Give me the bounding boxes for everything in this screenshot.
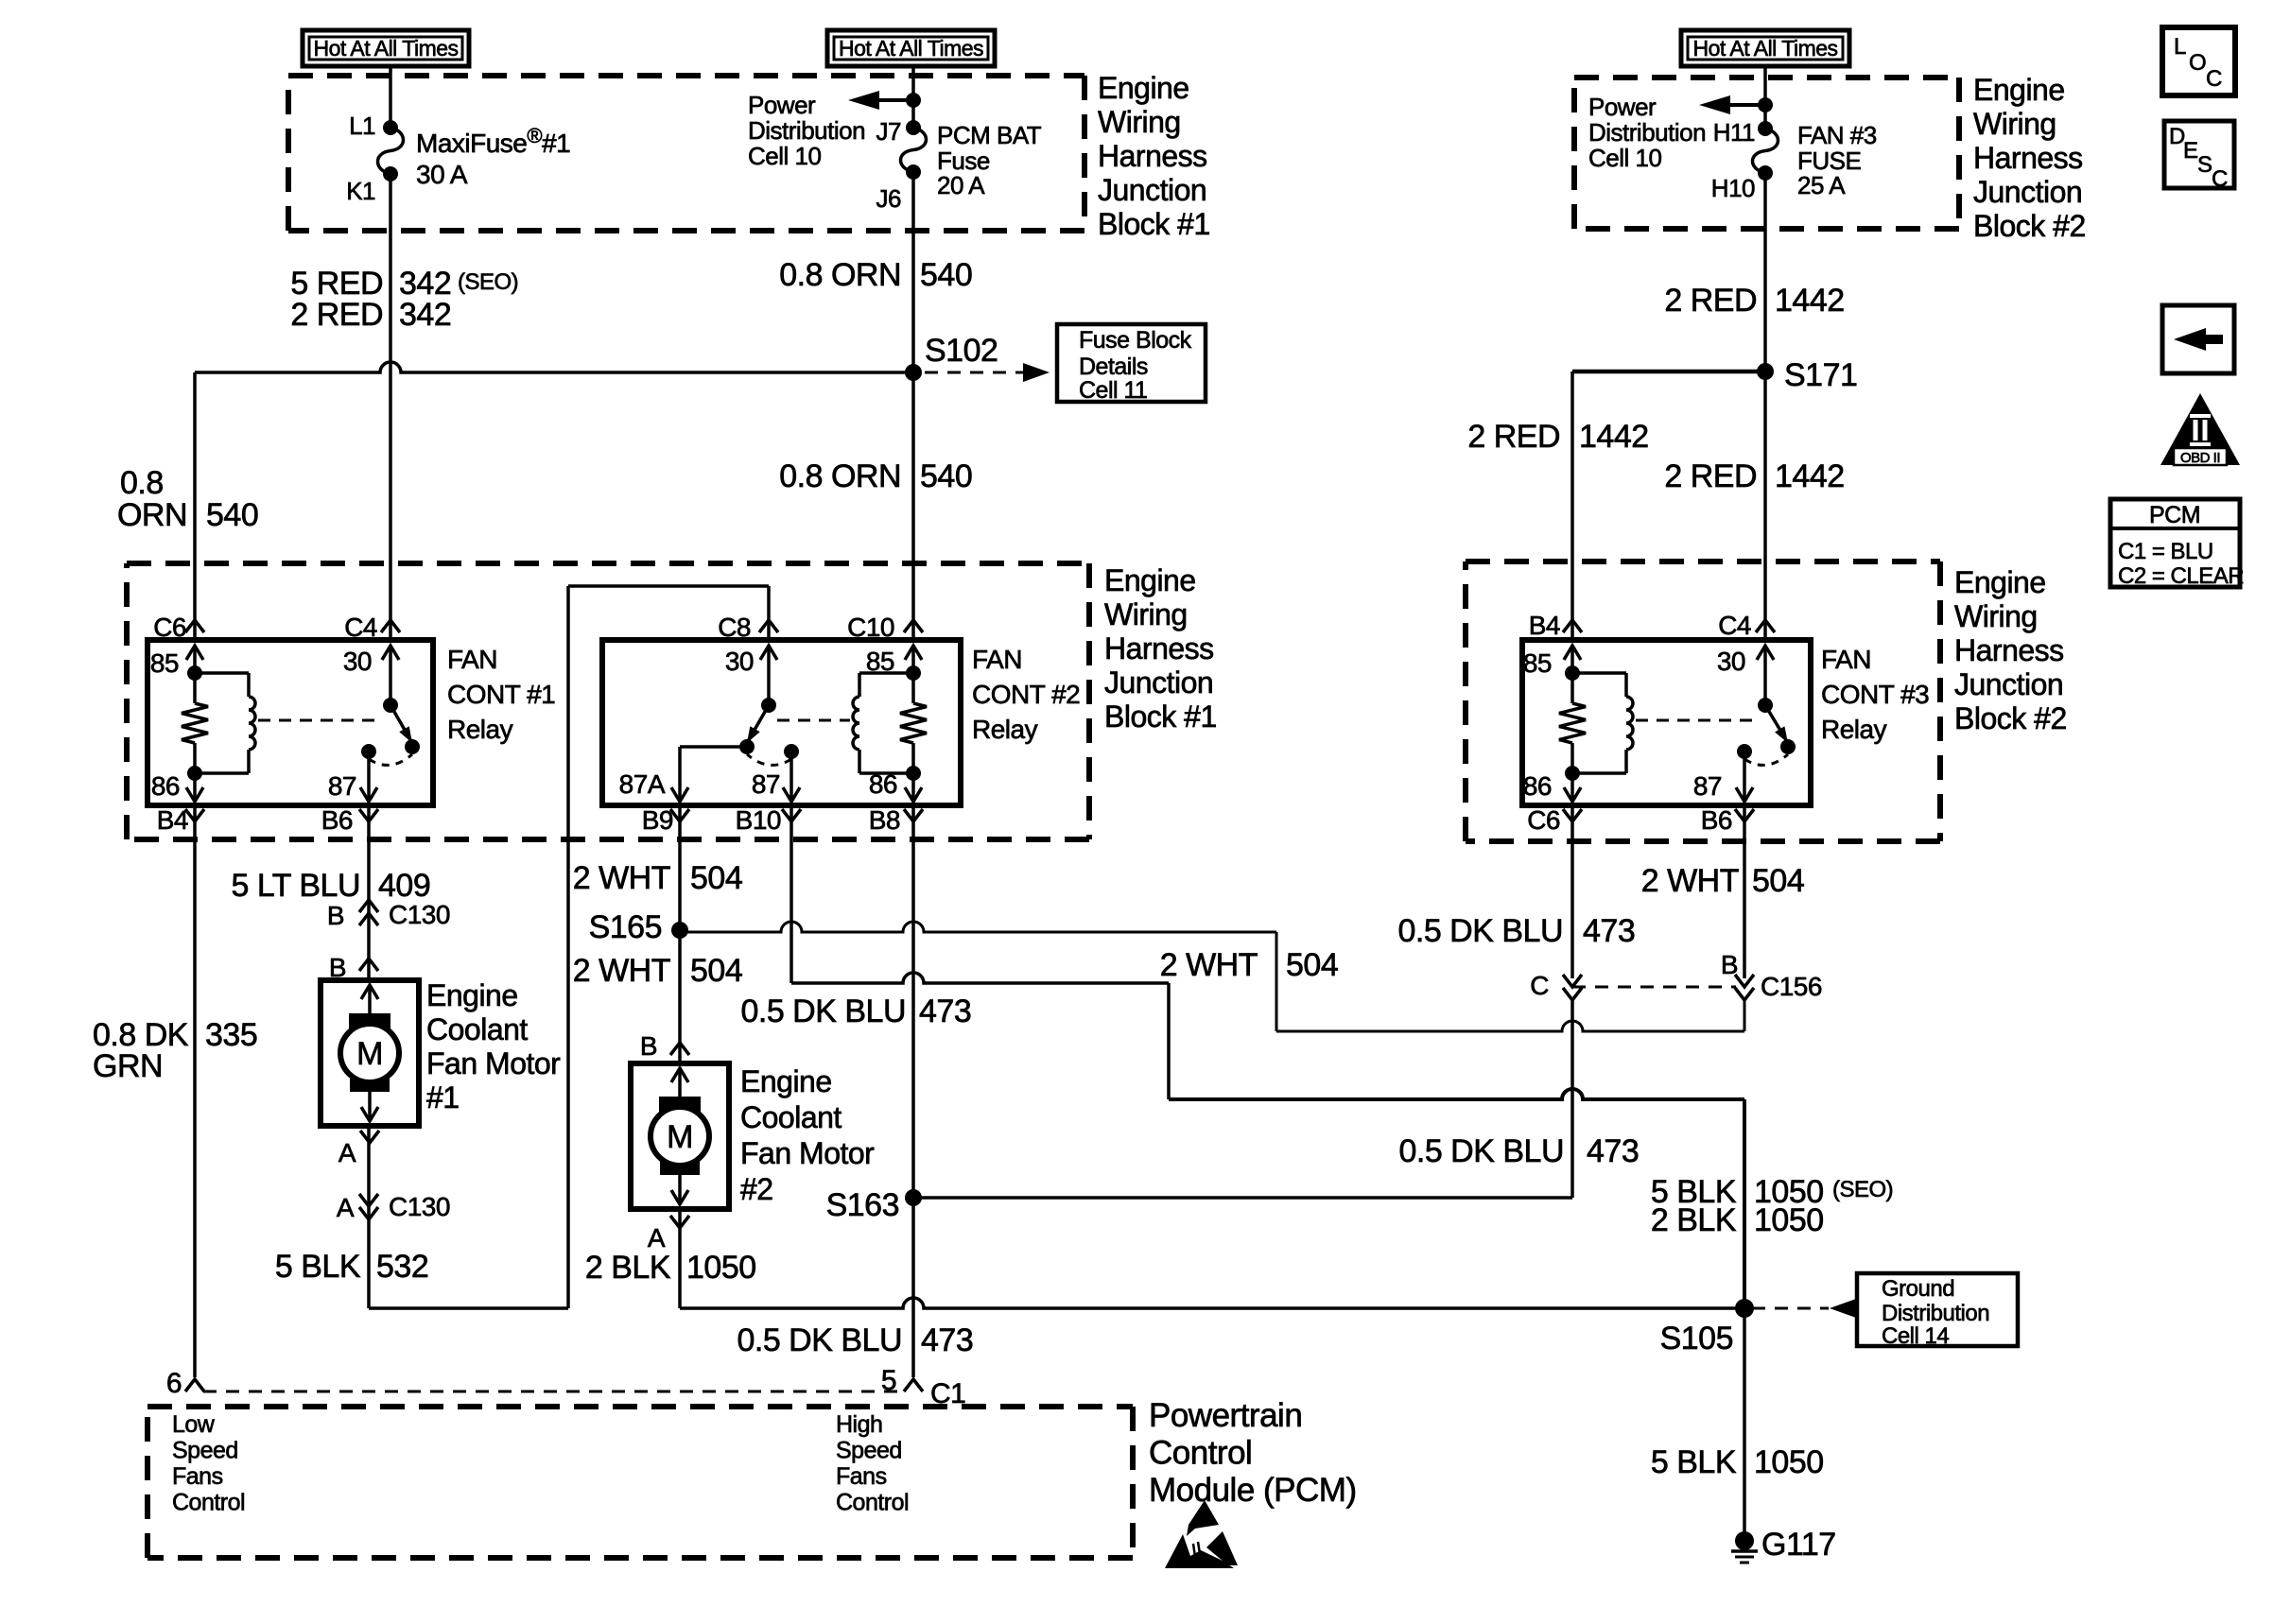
svg-text:A: A	[338, 1138, 356, 1167]
svg-text:335: 335	[205, 1017, 257, 1053]
svg-text:30: 30	[343, 647, 372, 676]
svg-text:C1 = BLU: C1 = BLU	[2118, 539, 2213, 564]
svg-text:Cell 11: Cell 11	[1079, 377, 1147, 404]
svg-text:1050: 1050	[686, 1250, 756, 1286]
svg-text:Coolant: Coolant	[426, 1012, 528, 1046]
svg-text:Block #2: Block #2	[1954, 701, 2067, 735]
svg-text:Harness: Harness	[1104, 631, 1214, 665]
svg-text:(SEO): (SEO)	[458, 269, 518, 295]
svg-text:1442: 1442	[1775, 458, 1845, 494]
svg-text:J7: J7	[876, 117, 902, 146]
svg-text:G117: G117	[1761, 1527, 1836, 1563]
svg-text:C: C	[1530, 971, 1549, 1000]
svg-text:Relay: Relay	[1821, 715, 1887, 744]
svg-text:473: 473	[921, 1322, 973, 1358]
svg-text:20 A: 20 A	[937, 171, 985, 199]
svg-text:Junction: Junction	[1104, 665, 1213, 700]
svg-text:2 BLK: 2 BLK	[585, 1250, 671, 1286]
svg-text:L: L	[2174, 34, 2186, 60]
svg-text:Engine: Engine	[1954, 565, 2046, 599]
svg-text:5 BLK: 5 BLK	[1651, 1444, 1737, 1480]
svg-text:2 RED: 2 RED	[290, 297, 383, 333]
svg-text:Module (PCM): Module (PCM)	[1149, 1472, 1357, 1509]
svg-text:1050: 1050	[1754, 1202, 1824, 1238]
svg-text:532: 532	[376, 1249, 428, 1285]
svg-text:30 A: 30 A	[416, 160, 468, 189]
svg-text:87: 87	[328, 771, 356, 801]
svg-text:Junction: Junction	[1954, 667, 2063, 701]
svg-text:Harness: Harness	[1973, 141, 2083, 175]
svg-text:Distribution: Distribution	[1588, 118, 1706, 147]
svg-text:K1: K1	[346, 177, 375, 205]
svg-text:Control: Control	[172, 1490, 245, 1516]
svg-text:S102: S102	[925, 333, 998, 369]
svg-text:Block #1: Block #1	[1104, 700, 1217, 734]
svg-text:Power: Power	[1588, 93, 1657, 121]
svg-text:540: 540	[920, 257, 972, 293]
svg-text:2 WHT: 2 WHT	[1160, 947, 1258, 983]
svg-text:M: M	[667, 1119, 693, 1155]
svg-text:Power: Power	[748, 91, 816, 119]
svg-text:Speed: Speed	[836, 1438, 902, 1464]
svg-text:B8: B8	[869, 805, 900, 835]
svg-text:504: 504	[690, 860, 742, 896]
svg-text:0.5 DK BLU: 0.5 DK BLU	[1398, 1133, 1564, 1169]
svg-text:Distribution: Distribution	[1882, 1301, 1989, 1326]
svg-text:#1: #1	[426, 1080, 460, 1114]
svg-text:30: 30	[725, 647, 754, 676]
svg-text:B6: B6	[1701, 805, 1732, 835]
svg-text:87: 87	[752, 769, 780, 799]
svg-text:Harness: Harness	[1098, 139, 1207, 173]
svg-text:Coolant: Coolant	[740, 1100, 842, 1134]
svg-text:473: 473	[919, 993, 971, 1029]
svg-text:B: B	[640, 1031, 657, 1061]
svg-text:M: M	[356, 1036, 383, 1072]
svg-text:Block #2: Block #2	[1973, 209, 2086, 243]
svg-text:B9: B9	[642, 805, 673, 835]
svg-text:Powertrain: Powertrain	[1149, 1397, 1302, 1434]
svg-text:CONT #1: CONT #1	[447, 680, 555, 709]
svg-text:85: 85	[1523, 648, 1552, 678]
svg-text:CONT #2: CONT #2	[972, 680, 1080, 709]
svg-text:FAN: FAN	[1821, 645, 1871, 674]
svg-text:B4: B4	[1529, 611, 1560, 640]
svg-text:CONT #3: CONT #3	[1821, 680, 1929, 709]
svg-text:Wiring: Wiring	[1973, 107, 2056, 141]
svg-text:Hot At All Times: Hot At All Times	[839, 36, 983, 60]
svg-text:Control: Control	[1149, 1435, 1252, 1472]
svg-text:S105: S105	[1660, 1321, 1733, 1356]
svg-text:Speed: Speed	[172, 1438, 238, 1464]
svg-text:Engine: Engine	[426, 978, 518, 1012]
svg-text:Engine: Engine	[1973, 73, 2065, 107]
svg-text:Engine: Engine	[740, 1064, 832, 1098]
svg-text:C130: C130	[389, 1192, 450, 1221]
svg-text:6: 6	[166, 1368, 182, 1399]
svg-text:25 A: 25 A	[1797, 171, 1846, 199]
svg-text:0.5 DK BLU: 0.5 DK BLU	[737, 1322, 902, 1358]
svg-text:C4: C4	[1718, 611, 1751, 640]
svg-text:Cell 10: Cell 10	[1588, 144, 1661, 172]
svg-text:2 RED: 2 RED	[1664, 283, 1757, 319]
svg-text:GRN: GRN	[93, 1048, 163, 1084]
svg-text:86: 86	[869, 769, 897, 799]
svg-text:2 WHT: 2 WHT	[573, 860, 670, 896]
svg-text:Fans: Fans	[172, 1463, 223, 1490]
svg-text:0.8 ORN: 0.8 ORN	[779, 257, 901, 293]
svg-text:S: S	[2197, 152, 2212, 178]
svg-text:B10: B10	[736, 805, 781, 835]
svg-text:C6: C6	[1527, 805, 1560, 835]
svg-text:H11: H11	[1713, 118, 1755, 147]
svg-text:C156: C156	[1761, 972, 1822, 1001]
svg-text:504: 504	[1286, 947, 1338, 983]
svg-text:Fan Motor: Fan Motor	[426, 1046, 561, 1080]
svg-text:Control: Control	[836, 1490, 909, 1516]
svg-text:FAN: FAN	[447, 645, 497, 674]
svg-text:Distribution: Distribution	[748, 116, 865, 145]
svg-text:B: B	[327, 901, 344, 930]
svg-text:2 BLK: 2 BLK	[1651, 1202, 1737, 1238]
svg-text:2 WHT: 2 WHT	[573, 953, 670, 989]
svg-text:J6: J6	[876, 184, 902, 213]
svg-text:S165: S165	[589, 909, 662, 945]
svg-text:504: 504	[1752, 863, 1804, 899]
svg-text:87: 87	[1693, 771, 1722, 801]
svg-text:504: 504	[690, 953, 742, 989]
svg-text:Hot At All Times: Hot At All Times	[1692, 36, 1837, 60]
svg-text:FAN #3: FAN #3	[1797, 121, 1877, 149]
svg-text:Cell 14: Cell 14	[1882, 1323, 1949, 1349]
svg-text:A: A	[337, 1193, 355, 1222]
svg-text:PCM BAT: PCM BAT	[937, 121, 1042, 149]
svg-text:L1: L1	[349, 112, 375, 140]
svg-text:Wiring: Wiring	[1954, 599, 2038, 633]
svg-text:87A: 87A	[619, 769, 666, 799]
svg-text:Relay: Relay	[972, 715, 1038, 744]
svg-text:540: 540	[920, 458, 972, 494]
svg-text:S171: S171	[1784, 357, 1857, 393]
svg-text:86: 86	[151, 771, 180, 801]
svg-text:5 BLK: 5 BLK	[275, 1249, 361, 1285]
svg-text:MaxiFuse®#1: MaxiFuse®#1	[416, 124, 570, 158]
svg-text:Engine: Engine	[1104, 563, 1196, 597]
svg-text:C1: C1	[930, 1378, 965, 1409]
svg-text:540: 540	[206, 497, 258, 533]
svg-text:O: O	[2189, 50, 2206, 76]
svg-text:85: 85	[150, 648, 179, 678]
svg-text:B: B	[1721, 950, 1738, 979]
svg-text:1442: 1442	[1579, 419, 1649, 455]
svg-text:A: A	[648, 1223, 666, 1253]
svg-text:Fan Motor: Fan Motor	[740, 1136, 875, 1170]
svg-text:0.8 ORN: 0.8 ORN	[779, 458, 901, 494]
svg-text:H10: H10	[1711, 174, 1755, 202]
svg-text:Hot At All Times: Hot At All Times	[313, 36, 458, 60]
svg-text:342: 342	[399, 297, 451, 333]
svg-text:Wiring: Wiring	[1098, 105, 1181, 139]
svg-text:High: High	[836, 1411, 882, 1438]
svg-text:(SEO): (SEO)	[1832, 1177, 1893, 1202]
svg-text:S163: S163	[826, 1187, 899, 1223]
svg-text:Wiring: Wiring	[1104, 597, 1188, 631]
svg-text:473: 473	[1583, 913, 1635, 949]
svg-text:1442: 1442	[1775, 283, 1845, 319]
svg-text:OBD II: OBD II	[2180, 450, 2220, 466]
svg-text:Harness: Harness	[1954, 633, 2064, 667]
svg-text:2 RED: 2 RED	[1664, 458, 1757, 494]
svg-text:1050: 1050	[1754, 1444, 1824, 1480]
svg-text:PCM: PCM	[2149, 502, 2200, 528]
svg-text:C130: C130	[389, 900, 450, 929]
svg-text:30: 30	[1717, 647, 1745, 676]
svg-text:0.5 DK BLU: 0.5 DK BLU	[1397, 913, 1563, 949]
svg-text:C: C	[2212, 166, 2228, 192]
svg-text:473: 473	[1587, 1133, 1639, 1169]
svg-text:C10: C10	[847, 613, 894, 642]
svg-text:86: 86	[1523, 771, 1552, 801]
svg-text:Engine: Engine	[1098, 71, 1189, 105]
svg-text:B6: B6	[321, 805, 353, 835]
svg-text:Relay: Relay	[447, 715, 513, 744]
svg-text:85: 85	[866, 647, 894, 676]
svg-text:2 RED: 2 RED	[1467, 419, 1560, 455]
svg-text:409: 409	[378, 868, 430, 904]
svg-text:Low: Low	[172, 1411, 216, 1438]
svg-text:0.5 DK BLU: 0.5 DK BLU	[740, 993, 906, 1029]
svg-text:#2: #2	[740, 1172, 773, 1206]
svg-text:C6: C6	[153, 613, 186, 642]
svg-text:Ground: Ground	[1882, 1276, 1954, 1302]
svg-text:C4: C4	[344, 613, 377, 642]
svg-text:C: C	[2206, 66, 2222, 92]
svg-text:FAN: FAN	[972, 645, 1022, 674]
svg-text:Junction: Junction	[1973, 175, 2082, 209]
svg-text:C2 = CLEAR: C2 = CLEAR	[2118, 563, 2244, 589]
svg-text:0.8: 0.8	[120, 465, 164, 501]
svg-text:Fans: Fans	[836, 1463, 887, 1490]
svg-text:C8: C8	[718, 613, 751, 642]
svg-text:Fuse Block: Fuse Block	[1079, 327, 1192, 354]
svg-text:E: E	[2183, 138, 2198, 164]
svg-text:5 LT BLU: 5 LT BLU	[232, 868, 360, 904]
svg-text:B4: B4	[157, 805, 188, 835]
svg-text:Junction: Junction	[1098, 173, 1206, 207]
svg-text:Block #1: Block #1	[1098, 207, 1210, 241]
svg-text:2 WHT: 2 WHT	[1641, 863, 1739, 899]
svg-text:ORN: ORN	[117, 497, 187, 533]
svg-text:Cell 10: Cell 10	[748, 142, 821, 170]
svg-text:Details: Details	[1079, 354, 1148, 380]
